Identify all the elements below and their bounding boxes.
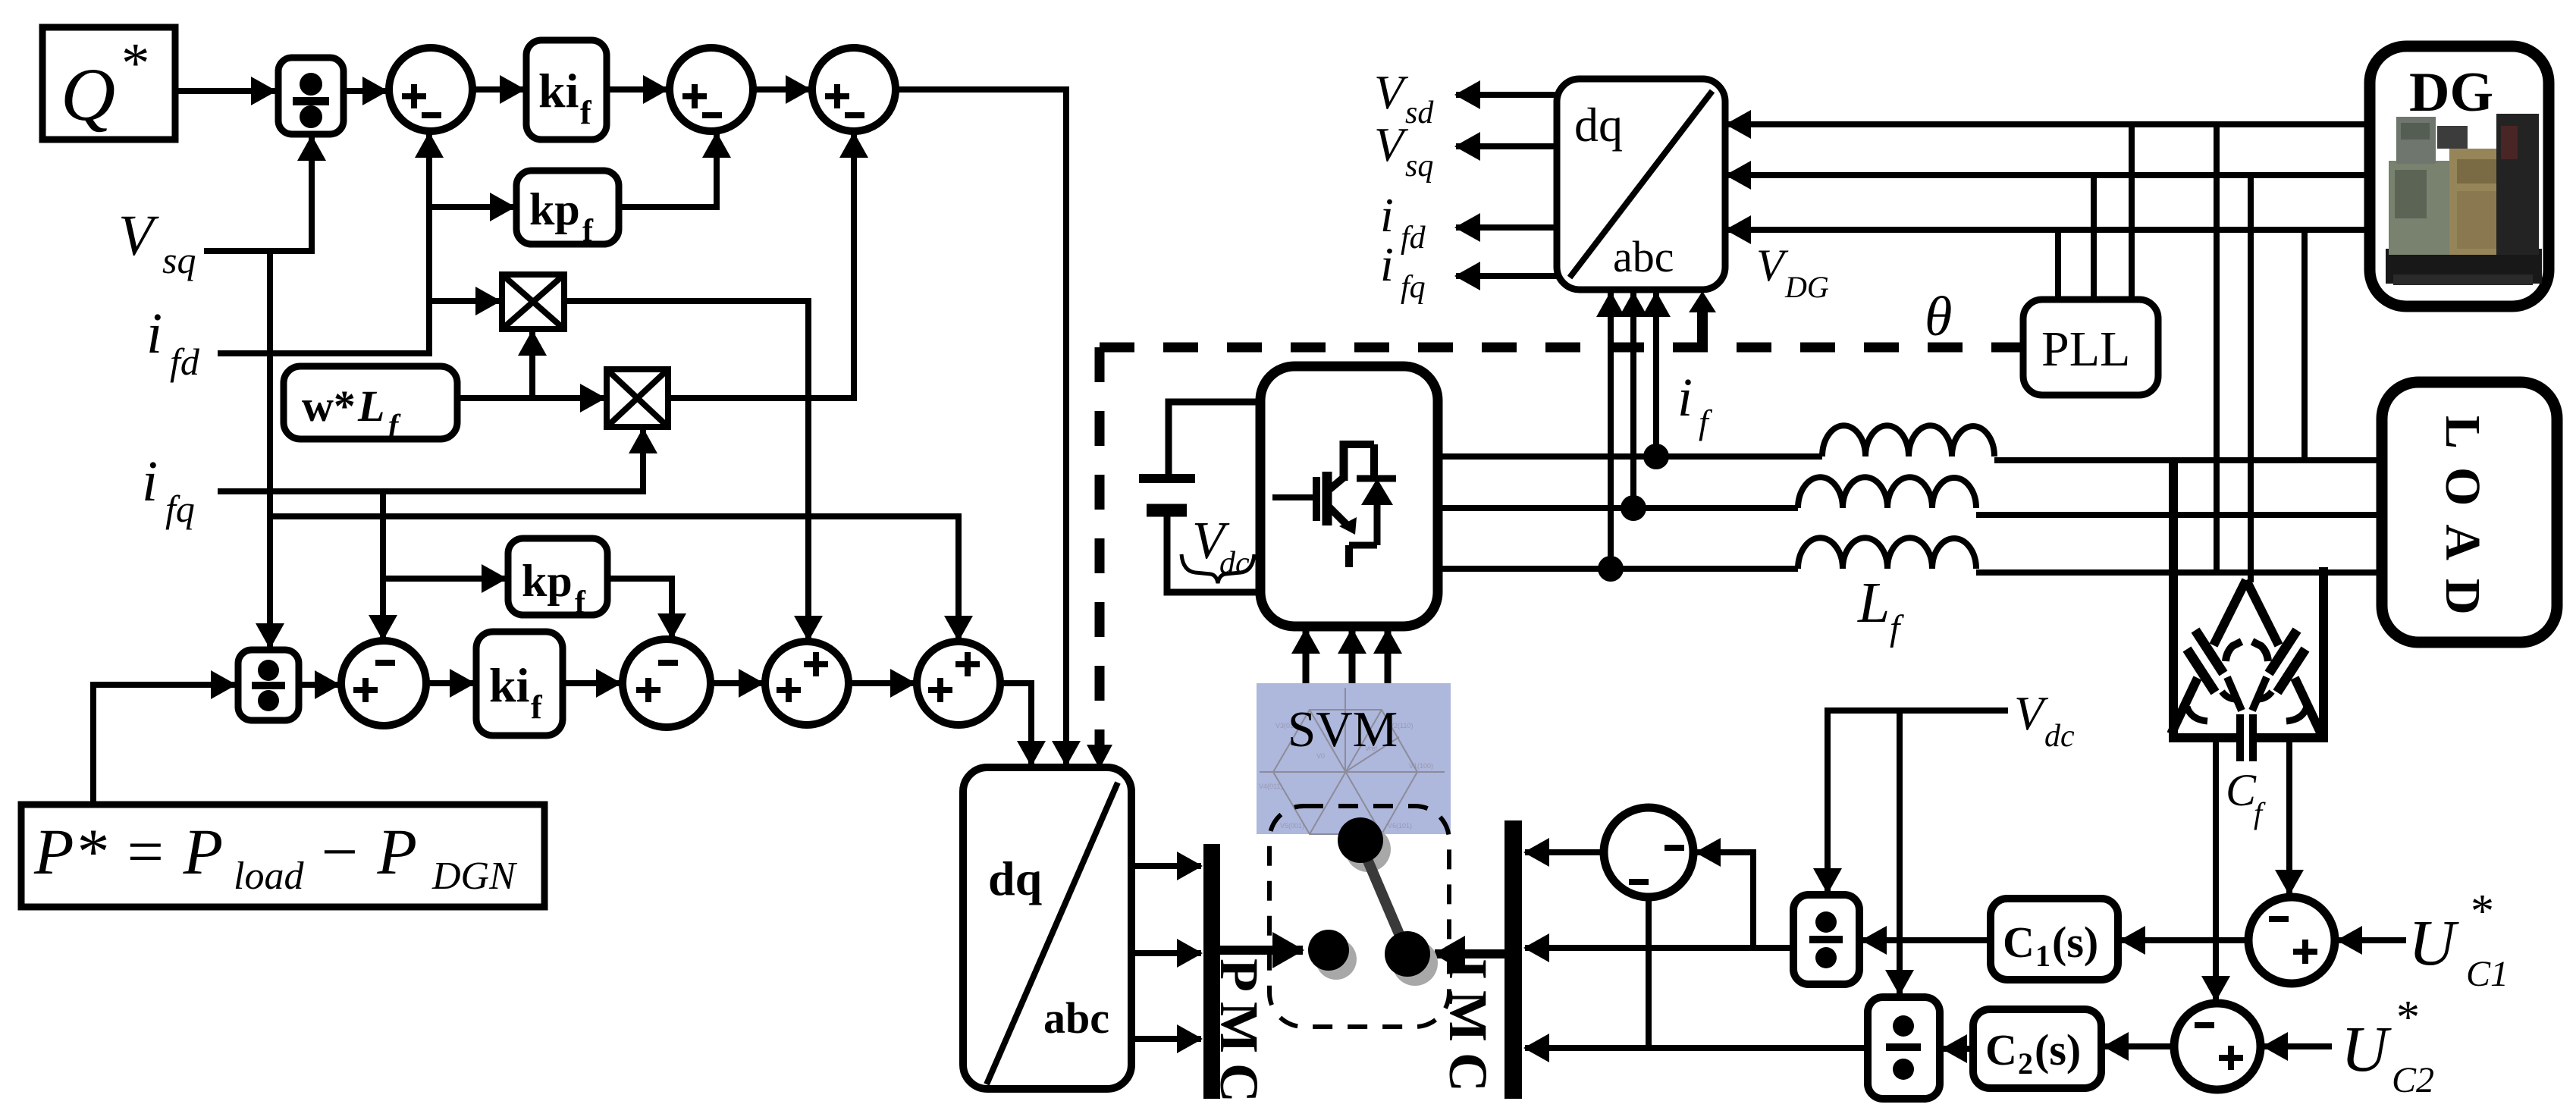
svg-text:V6(101): V6(101) bbox=[1388, 822, 1412, 830]
svg-text:C: C bbox=[2226, 765, 2257, 815]
svg-text:LOAD: LOAD bbox=[2435, 416, 2490, 633]
svg-text:V4(011): V4(011) bbox=[1259, 783, 1282, 790]
svg-text:i: i bbox=[142, 450, 158, 513]
svg-text:U: U bbox=[2341, 1012, 2392, 1085]
svg-text:V: V bbox=[1756, 240, 1789, 290]
svg-text:ki: ki bbox=[538, 64, 579, 118]
svg-text:i: i bbox=[146, 302, 162, 365]
svg-text:L: L bbox=[1857, 571, 1890, 635]
svg-text:dc: dc bbox=[2044, 719, 2075, 754]
svg-text:− P: − P bbox=[317, 815, 417, 888]
svg-text:fq: fq bbox=[165, 488, 195, 530]
svg-text:fd: fd bbox=[1401, 221, 1426, 256]
svg-text:DGN: DGN bbox=[431, 855, 518, 898]
svg-text:(s): (s) bbox=[2035, 1025, 2081, 1075]
svg-text:kp: kp bbox=[529, 184, 580, 234]
svg-text:load: load bbox=[234, 855, 304, 898]
svg-text:f: f bbox=[582, 214, 594, 249]
svg-text:DG: DG bbox=[1784, 270, 1829, 304]
svg-text:i: i bbox=[1380, 237, 1394, 291]
svg-text:sq: sq bbox=[1405, 149, 1433, 184]
svg-text:fd: fd bbox=[170, 340, 200, 383]
svg-text:C2: C2 bbox=[2392, 1060, 2434, 1100]
svg-text:V5(001): V5(001) bbox=[1280, 822, 1304, 830]
svg-text:dq: dq bbox=[1574, 98, 1623, 152]
svg-text:PMC: PMC bbox=[1209, 958, 1269, 1112]
svg-text:i: i bbox=[1380, 188, 1394, 242]
svg-text:kp: kp bbox=[522, 556, 573, 606]
svg-text:C: C bbox=[1985, 1025, 2017, 1075]
svg-text:sq: sq bbox=[162, 239, 196, 281]
svg-text:2: 2 bbox=[2018, 1046, 2033, 1081]
svg-text:Q: Q bbox=[61, 52, 115, 136]
svg-text:θ: θ bbox=[1925, 286, 1952, 348]
svg-text:V: V bbox=[118, 204, 159, 268]
svg-text:L: L bbox=[357, 381, 384, 431]
svg-text:1: 1 bbox=[2035, 939, 2050, 973]
svg-text:*: * bbox=[121, 32, 150, 95]
svg-text:V1(100): V1(100) bbox=[1409, 762, 1433, 770]
svg-text:SVM: SVM bbox=[1288, 701, 1398, 758]
svg-text:abc: abc bbox=[1613, 232, 1674, 281]
svg-text:ki: ki bbox=[489, 658, 529, 712]
svg-text:DG: DG bbox=[2409, 61, 2493, 124]
svg-text:P* = P: P* = P bbox=[33, 815, 223, 888]
svg-text:fq: fq bbox=[1401, 270, 1426, 305]
svg-text:*: * bbox=[2396, 992, 2420, 1043]
svg-text:w*: w* bbox=[302, 381, 356, 431]
svg-text:C: C bbox=[2003, 918, 2035, 967]
svg-text:U: U bbox=[2408, 906, 2459, 979]
svg-text:f: f bbox=[580, 94, 592, 131]
svg-text:i: i bbox=[1677, 367, 1693, 428]
svg-text:IMC: IMC bbox=[1438, 958, 1498, 1103]
svg-text:*: * bbox=[2471, 886, 2494, 937]
svg-text:dq: dq bbox=[988, 852, 1042, 905]
svg-text:f: f bbox=[575, 585, 586, 620]
svg-text:f: f bbox=[531, 689, 543, 726]
svg-text:(s): (s) bbox=[2052, 918, 2098, 967]
svg-text:C1: C1 bbox=[2466, 954, 2509, 994]
svg-text:PLL: PLL bbox=[2041, 322, 2130, 377]
svg-text:abc: abc bbox=[1043, 993, 1109, 1043]
svg-text:sd: sd bbox=[1405, 96, 1434, 130]
